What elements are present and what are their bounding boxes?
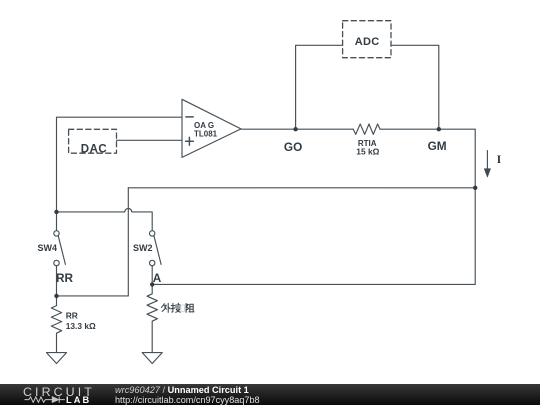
wire: right rail vertical (GM corner down to node A wire) (474, 129, 476, 284)
node dot GO (293, 127, 297, 131)
DAC dashed box (69, 129, 117, 153)
svg-text:ADC: ADC (355, 36, 380, 48)
footer title line (115, 385, 249, 395)
resistor 外接电阻 (vertical zigzag) (147, 284, 157, 352)
svg-text:15 kΩ: 15 kΩ (356, 147, 379, 157)
resistor RTIA (horizontal zigzag) (353, 124, 380, 134)
svg-text:A: A (153, 271, 162, 285)
glyph 接 (171, 303, 180, 312)
wire: DAC output to op-amp non-inverting input (117, 139, 183, 141)
wire: GO up and right to ADC left pin (296, 45, 343, 129)
wire: feedback junction to SW4 top (56, 212, 58, 231)
svg-text:GM: GM (428, 139, 447, 153)
svg-text:TL081: TL081 (194, 130, 218, 139)
wire: node A to right rail (152, 283, 475, 285)
switch SW2 (150, 231, 162, 266)
svg-text:RR: RR (56, 271, 74, 285)
ground (external resistor branch) (142, 353, 162, 364)
wire: tie line horizontal to right rail junction (128, 187, 475, 189)
wire: node RR junction to tie line (57, 295, 129, 297)
wire: SW2 bottom to node A junction (151, 266, 153, 285)
svg-text:DAC: DAC (81, 143, 107, 155)
wire: ADC right pin to GM (391, 45, 439, 129)
CircuitLab footer bar (0, 384, 540, 405)
node dot: feedback junction (54, 210, 58, 214)
wire: op-amp output rail through GO to RTIA (241, 128, 353, 130)
svg-text:SW4: SW4 (38, 243, 58, 253)
glyph □ (missing glyph box) (181, 305, 185, 311)
wire: RTIA to GM and right rail corner (380, 128, 475, 130)
op-amp U1 triangle body (182, 99, 241, 157)
svg-text:13.3 kΩ: 13.3 kΩ (66, 321, 96, 331)
node dot GM (437, 127, 441, 131)
label 外接□阻 (drawn glyphs) (161, 303, 194, 312)
node dot RR (54, 294, 58, 298)
wire: feedback junction right to SW2 (hop over tie line) (57, 208, 153, 230)
CircuitLab logo text (23, 385, 95, 399)
op-amp plus marker (186, 137, 194, 145)
svg-text:SW2: SW2 (133, 243, 153, 253)
glyph 外 (161, 303, 170, 312)
CircuitLab logo squiggle (resistor + diode) (0, 384, 100, 405)
current arrow I (484, 151, 490, 177)
node dot: right rail / tie line junction (473, 186, 477, 190)
svg-text:RR: RR (66, 311, 78, 321)
switch SW4 (54, 231, 66, 266)
resistor RR (vertical zigzag) (51, 296, 61, 353)
svg-text:I: I (497, 152, 502, 166)
op-amp minus marker (186, 116, 193, 118)
ground (RR branch) (47, 353, 67, 364)
wire: tie line vertical (127, 188, 129, 296)
ADC dashed box (343, 21, 391, 58)
svg-text:GO: GO (284, 140, 302, 154)
wire: op-amp inverting input left and down to feedback junction (57, 117, 183, 212)
footer url line (115, 395, 260, 405)
wire: SW4 bottom to node RR junction (56, 266, 58, 296)
glyph 阻 (186, 304, 194, 313)
node dot A (150, 282, 154, 286)
